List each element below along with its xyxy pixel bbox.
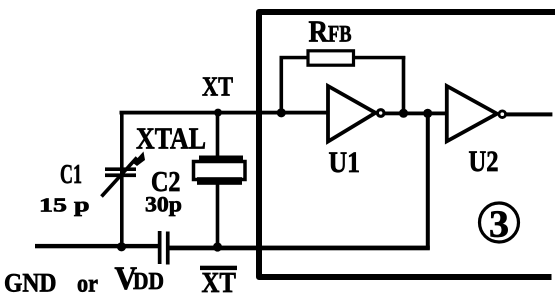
svg-text:3: 3 [489, 204, 509, 246]
svg-text:U1: U1 [329, 146, 361, 179]
svg-text:15 p: 15 p [39, 195, 90, 217]
svg-text:XT: XT [202, 71, 233, 101]
svg-text:GND: GND [4, 269, 57, 297]
svg-text:30p: 30p [145, 192, 182, 217]
svg-text:XT: XT [202, 268, 237, 297]
svg-text:FB: FB [328, 22, 352, 47]
svg-text:XTAL: XTAL [136, 120, 206, 155]
svg-text:or: or [77, 271, 98, 297]
svg-text:U2: U2 [469, 145, 499, 178]
svg-text:R: R [309, 14, 329, 49]
svg-text:DD: DD [133, 269, 164, 295]
svg-text:C1: C1 [60, 159, 82, 189]
